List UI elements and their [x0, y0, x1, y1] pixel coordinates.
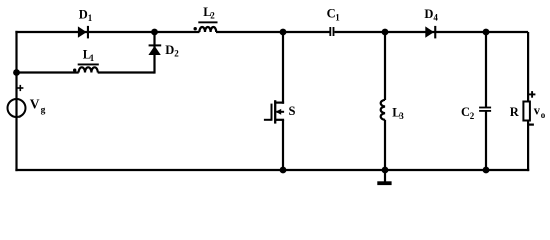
node dot S/bottom-rail junction: [280, 167, 287, 174]
svg-text:S: S: [289, 104, 296, 118]
label L3: [392, 106, 404, 122]
label Vg: [30, 97, 46, 116]
capacitor C1 right plate: [333, 27, 335, 36]
svg-text:D: D: [79, 8, 88, 22]
label C1: [327, 7, 341, 23]
svg-text:2: 2: [174, 49, 179, 59]
transistor S source lead: [275, 119, 284, 121]
wire C2 branch upper: [485, 32, 487, 108]
wire S branch source vertical: [282, 120, 284, 170]
inductor L1 polarity dot: [73, 69, 76, 72]
transistor S body arrowhead: [276, 109, 282, 115]
transistor S gate bar: [271, 104, 273, 121]
node dot C2/bottom-rail junction: [483, 167, 490, 174]
capacitor C1 left plate: [329, 27, 331, 36]
wire L3 branch upper: [384, 32, 386, 100]
svg-text:1: 1: [90, 53, 95, 63]
wire S branch drain vertical: [282, 32, 284, 104]
svg-text:2: 2: [210, 10, 215, 20]
capacitor C2 bottom plate: [479, 110, 491, 112]
label L1: [83, 47, 95, 63]
svg-text:v: v: [534, 103, 541, 117]
capacitor C2 top plate: [479, 107, 491, 109]
ground bar: [377, 181, 391, 185]
output plus sign: [529, 91, 536, 98]
node dot C2/top-rail junction: [483, 29, 490, 36]
diode D2 triangle: [148, 46, 160, 55]
output minus sign: [529, 123, 534, 125]
label D4: [424, 7, 438, 23]
inductor L2 coil: [199, 27, 216, 32]
inductor L2 polarity dot: [194, 27, 197, 30]
voltage source Vg circle: [8, 99, 26, 117]
wire L3 branch lower: [384, 120, 386, 170]
svg-text:g: g: [41, 105, 46, 115]
diode D2 cathode bar: [149, 44, 162, 46]
inductor L2 core bar: [198, 21, 217, 23]
node dot D2/top-rail junction: [151, 29, 158, 36]
transistor S channel bar: [274, 100, 276, 123]
node dot S/top-rail junction: [280, 29, 287, 36]
label D1: [79, 8, 93, 24]
wire L1 branch left segment: [17, 71, 79, 73]
label S: [289, 104, 296, 118]
resistor R box: [523, 102, 530, 121]
voltage source minus sign: [18, 116, 21, 118]
svg-text:1: 1: [335, 12, 340, 22]
svg-text:R: R: [510, 105, 520, 119]
wire C2 branch lower: [485, 111, 487, 170]
label C2: [461, 105, 475, 121]
svg-text:2: 2: [470, 111, 475, 121]
wire top rail left segment: [15, 31, 199, 33]
diode D4 cathode bar: [434, 26, 436, 39]
svg-text:3: 3: [399, 111, 404, 121]
voltage source plus sign: [17, 85, 23, 91]
node dot L3/bottom-rail junction: [382, 167, 389, 174]
svg-text:D: D: [424, 7, 433, 21]
svg-text:V: V: [30, 97, 40, 112]
transistor S body lead: [277, 111, 285, 113]
diode D1 cathode bar: [87, 26, 89, 39]
inductor L1 coil: [79, 67, 98, 72]
svg-text:C: C: [327, 7, 336, 21]
ground stub: [384, 170, 386, 182]
svg-text:o: o: [541, 110, 546, 120]
label D2: [165, 43, 179, 59]
diode D4 triangle: [425, 26, 434, 37]
label R: [510, 105, 520, 119]
wire left rail: [15, 31, 17, 171]
wire D2 branch vertical: [153, 32, 155, 74]
node dot L1-branch/left-rail junction: [13, 69, 20, 76]
transistor S drain lead: [275, 101, 284, 103]
inductor L3 coil: [381, 100, 385, 120]
transistor S gate lead: [264, 119, 272, 121]
wire right rail lower: [527, 121, 529, 172]
inductor L1 core bar: [78, 64, 99, 66]
label vo: [534, 103, 546, 120]
diode D1 triangle: [78, 26, 87, 37]
wire L1 branch right segment: [98, 71, 155, 73]
svg-text:1: 1: [88, 13, 93, 23]
node dot L3/top-rail junction: [382, 29, 389, 36]
svg-text:D: D: [165, 43, 174, 57]
label L2: [203, 5, 215, 21]
wire bottom rail: [15, 169, 529, 171]
wire top rail right segment: [334, 31, 528, 33]
svg-text:C: C: [461, 105, 470, 119]
wire top rail middle segment: [216, 31, 330, 33]
svg-text:4: 4: [433, 13, 438, 23]
wire right rail upper: [527, 32, 529, 102]
